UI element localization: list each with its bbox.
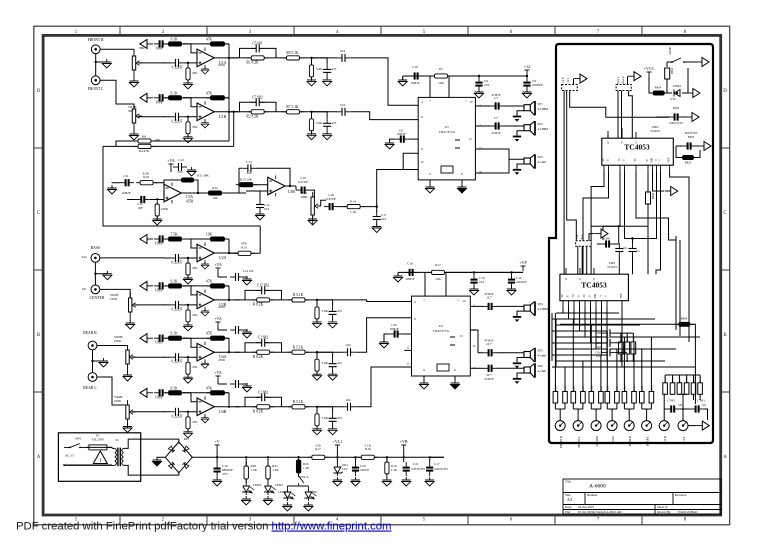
resistor R16 1.2K switch SW2-A LEDs (297, 456, 299, 458)
ground (382, 477, 391, 486)
svg-text:+VB: +VB (400, 439, 408, 444)
wire (100, 289, 130, 298)
ground (323, 131, 332, 140)
capacitor C16 100UF (404, 269, 418, 276)
feedback box with capacitor C? 682 (245, 343, 282, 353)
svg-text:104: 104 (484, 83, 489, 87)
wire right bundle (625, 172, 661, 274)
resistor R 8.2K (253, 405, 274, 409)
ground (328, 319, 337, 328)
svg-text:5.1K: 5.1K (365, 444, 372, 448)
svg-text:100P: 100P (155, 46, 162, 50)
svg-text:C510: C510 (595, 351, 601, 354)
svg-text:104: 104 (479, 280, 484, 284)
svg-text:LED3: LED3 (278, 490, 286, 494)
capacitor C15 2200UF (511, 272, 513, 275)
wire (155, 183, 164, 188)
svg-text:1.2K: 1.2K (391, 468, 398, 472)
svg-text:4-ohm: 4-ohm (538, 160, 547, 164)
connector CN3 dashed (576, 241, 592, 247)
potentiometer REAR R (624, 421, 634, 431)
svg-text:R2 8.2K: R2 8.2K (246, 115, 259, 119)
svg-text:E903: E903 (688, 135, 695, 139)
svg-text:15: 15 (473, 344, 477, 348)
ground (242, 496, 251, 505)
coupling capacitor (342, 348, 356, 356)
wire (163, 411, 197, 413)
svg-text:C17: C17 (434, 462, 440, 466)
svg-text:C508: C508 (595, 342, 601, 345)
resistor R2 8.2K (247, 110, 268, 114)
resistor R804 (675, 322, 694, 326)
power +VA C12 (167, 158, 175, 169)
svg-text:C? 682: C? 682 (258, 336, 268, 340)
wire row1 to IC1 (351, 58, 419, 105)
svg-text:+VF: +VF (519, 260, 527, 265)
svg-text:U1B: U1B (219, 115, 227, 119)
capacitor 0.22UF (170, 254, 184, 262)
svg-text:100K: 100K (114, 399, 122, 403)
svg-text:+V: +V (215, 439, 220, 444)
svg-text:RE1: RE1 (184, 437, 190, 441)
svg-text:C16: C16 (407, 262, 413, 266)
svg-text:10K: 10K (438, 81, 444, 85)
ground (95, 262, 107, 285)
svg-text:REAR L: REAR L (647, 436, 650, 446)
svg-text:100UF: 100UF (396, 132, 405, 136)
resistor R825 (679, 156, 698, 160)
svg-text:C7902: C7902 (667, 400, 675, 403)
capacitor C11 100UF (108, 185, 117, 194)
capacitor C17 103 to ground (376, 207, 378, 212)
wire transformer to bridge (123, 439, 178, 448)
svg-text:C: C (659, 159, 662, 161)
svg-text:AC 15: AC 15 (65, 454, 74, 458)
svg-text:C7: C7 (494, 116, 498, 120)
svg-text:D: D (723, 89, 727, 94)
wire right column (669, 230, 690, 318)
svg-text:A in: A in (576, 234, 579, 239)
wire (100, 80, 134, 109)
output capacitor 470UF SP4 (470, 305, 483, 307)
svg-text:0.22UF: 0.22UF (172, 261, 183, 265)
svg-text:T1: T1 (115, 438, 119, 442)
LED LED4 (245, 479, 247, 483)
svg-text:+VA: +VA (214, 262, 222, 267)
svg-text:SW1: SW1 (75, 437, 82, 441)
output capacitor 470UF SP5 (470, 330, 483, 353)
wire (214, 406, 239, 408)
svg-text:BASS: BASS (612, 436, 615, 443)
speaker SP4 (513, 301, 535, 322)
potentiometer BASS (607, 421, 617, 431)
arrow (653, 172, 665, 191)
capacitor to ground (317, 407, 333, 413)
input capacitor C6 100UF (395, 136, 409, 143)
capacitor C7902 (666, 405, 680, 412)
ground (313, 426, 322, 435)
resistor R840 (553, 392, 558, 404)
resistor R9 5.1K (283, 56, 304, 60)
ground (308, 216, 317, 225)
svg-text:4-ohm: 4-ohm (538, 354, 547, 358)
svg-text:R12: R12 (212, 186, 218, 190)
resistor R502 (625, 342, 630, 354)
svg-text:100K: 100K (161, 207, 169, 211)
ground (402, 477, 411, 486)
svg-text:7.5K: 7.5K (170, 233, 177, 237)
svg-text:C12: C12 (178, 158, 184, 162)
svg-text:1.5K: 1.5K (251, 468, 258, 472)
ground (184, 429, 193, 438)
wire (235, 351, 342, 353)
resistor R424 (649, 91, 668, 95)
svg-text:SP2: SP2 (538, 122, 544, 126)
input arrow (140, 39, 153, 48)
op-amp U4B (197, 396, 214, 417)
resistor R807 (677, 383, 682, 395)
svg-text:47K: 47K (192, 420, 198, 424)
svg-text:R11 39K: R11 39K (197, 174, 209, 178)
RCA jack FRONT R (91, 45, 100, 54)
ground (283, 502, 292, 511)
svg-text:Ctr R: Ctr R (562, 77, 565, 83)
arrow (589, 234, 595, 241)
svg-text:T3L250V: T3L250V (91, 438, 105, 442)
svg-text:104: 104 (346, 343, 351, 347)
node (310, 111, 312, 113)
svg-text:A: A (37, 455, 41, 460)
svg-text:TDA7377A: TDA7377A (433, 329, 450, 333)
svg-text:Drawn By:: Drawn By: (657, 510, 671, 514)
svg-text:R 5.1K: R 5.1K (293, 293, 304, 297)
resistor 47K to ground (187, 63, 189, 67)
svg-text:4558: 4558 (186, 200, 193, 204)
svg-text:5.6K: 5.6K (316, 67, 323, 71)
svg-text:4-OHM: 4-OHM (538, 307, 549, 311)
svg-text:5.6K: 5.6K (322, 309, 329, 313)
svg-text:R7: R7 (439, 67, 443, 71)
svg-text:10: 10 (463, 299, 467, 303)
power +VA decouple U4B (214, 370, 222, 381)
svg-text:C13: C13 (246, 160, 252, 164)
resistor R 8.2K (253, 350, 274, 354)
resistor R849 (632, 392, 637, 404)
resistor R 5.1K (288, 350, 309, 354)
svg-text:1502: 1502 (596, 346, 602, 349)
node +VB (400, 439, 408, 450)
svg-text:10UF: 10UF (155, 288, 163, 292)
capacitor to ground (317, 300, 333, 306)
svg-text:4-OHM: 4-OHM (538, 107, 549, 111)
wire (163, 356, 197, 358)
svg-text:INH: INH (594, 294, 597, 299)
resistor to ground (316, 352, 318, 358)
svg-text:47K: 47K (206, 386, 213, 390)
svg-text:LED2: LED2 (275, 483, 283, 487)
svg-text:9.1K: 9.1K (170, 279, 177, 283)
capacitor to ground (312, 58, 328, 64)
arrow (687, 89, 700, 98)
capacitor to ground (317, 352, 333, 358)
capacitor C19 6800UF (216, 457, 218, 463)
svg-text:PDF created with FinePrint pdf: PDF created with FinePrint pdfFactory tr… (16, 521, 391, 533)
potentiometer REAR L (642, 421, 652, 431)
svg-text:0.22UF: 0.22UF (172, 414, 183, 418)
svg-text:Ctr L: Ctr L (567, 77, 570, 83)
op-amp U3B (246, 185, 268, 191)
capacitor C7901 (690, 405, 704, 412)
svg-text:R18: R18 (365, 447, 371, 451)
switching section enclosure (549, 44, 713, 443)
speaker SP1 (513, 101, 535, 122)
wire (214, 299, 239, 301)
svg-text:0.22UF: 0.22UF (172, 307, 183, 311)
resistor R12 10K (205, 191, 226, 195)
wire row2 to IC1 (351, 112, 419, 120)
svg-text:7501: 7501 (596, 336, 602, 339)
feedback resistor 47K (183, 286, 229, 300)
svg-text:100UF/25V: 100UF/25V (411, 467, 426, 471)
svg-text:Z: Z (635, 141, 637, 145)
svg-text:File:: File: (565, 510, 571, 514)
capacitor C12 10UF (136, 196, 150, 203)
resistor R809 (691, 383, 696, 395)
svg-text:SP4: SP4 (538, 302, 544, 306)
svg-text:TC4053: TC4053 (624, 143, 650, 152)
svg-text:SP1: SP1 (538, 102, 544, 106)
svg-text:472: 472 (332, 121, 337, 125)
input capacitor 100UF (389, 330, 403, 337)
svg-text:10K: 10K (212, 196, 218, 200)
node +VL1 (333, 439, 343, 450)
svg-text:A: A (600, 295, 603, 297)
ground (213, 477, 222, 486)
title block (563, 479, 721, 514)
svg-text:R 5.1K: R 5.1K (293, 345, 304, 349)
wire (625, 172, 669, 239)
ground (123, 372, 132, 381)
ground (333, 477, 342, 486)
svg-text:TC4053: TC4053 (607, 265, 617, 269)
svg-text:SW2B: SW2B (669, 47, 672, 55)
svg-text:104: 104 (346, 398, 351, 402)
capacitor C9 104 (478, 75, 480, 77)
capacitor C17 100UF/25V (429, 457, 431, 462)
capacitor C910 (632, 239, 634, 244)
resistor R21 1.5K and LED2 (267, 456, 269, 458)
ground op-amp pin (201, 308, 209, 316)
svg-text:Sheet of: Sheet of (657, 505, 668, 509)
speaker SP2 (513, 121, 535, 142)
LED LED1 (304, 489, 316, 501)
arrow output (696, 421, 709, 430)
wire (116, 141, 137, 146)
resistor R8010 (698, 383, 703, 395)
wire (214, 252, 239, 254)
svg-text:470UF: 470UF (484, 292, 493, 296)
potentiometer FRONT L (573, 421, 583, 431)
ground op-amp pin (201, 415, 209, 423)
svg-text:100UF: 100UF (389, 327, 398, 331)
svg-text:47K: 47K (192, 71, 198, 75)
svg-text:5.6K: 5.6K (316, 121, 323, 125)
potentiometer AUX R (659, 421, 669, 431)
svg-text:470UF: 470UF (491, 93, 500, 97)
resistor R7 10K (431, 74, 452, 78)
svg-text:C17 682: C17 682 (257, 283, 269, 287)
ground IC1 (430, 180, 462, 185)
ground (184, 374, 193, 383)
wire primary (64, 447, 112, 465)
ground op-amp pin (201, 66, 209, 74)
resistor R805 (663, 383, 668, 395)
arrow (698, 142, 711, 151)
svg-text:10UF: 10UF (155, 242, 163, 246)
ground (96, 54, 107, 76)
wire (183, 338, 197, 347)
ground (153, 216, 162, 225)
IC2 small pins (450, 337, 455, 345)
wire (97, 346, 128, 351)
svg-text:4-OHM: 4-OHM (538, 127, 549, 131)
resistor to ground (311, 112, 313, 118)
svg-text:11: 11 (407, 362, 410, 366)
resistor R4 47K (134, 144, 155, 148)
ground IC2 (424, 376, 455, 381)
feedback resistor 10K (183, 239, 229, 253)
capacitor C8 2200UF (526, 76, 528, 78)
svg-text:+VA: +VA (214, 370, 222, 375)
svg-text:10P: 10P (678, 404, 683, 407)
capacitor to ground (312, 112, 328, 118)
svg-text:Number: Number (587, 493, 598, 497)
capacitor C20 100UF (354, 456, 356, 458)
input arrow (140, 388, 153, 397)
svg-text:AUX R: AUX R (664, 436, 667, 445)
svg-text:100UF/25V: 100UF/25V (434, 467, 449, 471)
feedback resistor R11 39K (164, 180, 198, 193)
wire horizontal distribution (556, 312, 619, 314)
svg-text:C? 682: C? 682 (258, 390, 268, 394)
sheet inner border (43, 35, 721, 515)
svg-text:47K: 47K (192, 125, 198, 129)
resistor to ground (316, 407, 318, 413)
coupling capacitor (337, 108, 351, 116)
capacitor 10UF (154, 282, 168, 289)
op-amp U3A (164, 183, 181, 204)
RCA jack BASS (91, 254, 100, 263)
svg-text:1C7: 1C7 (486, 296, 492, 300)
RCA jack REAR R (88, 341, 97, 350)
ground (184, 322, 193, 331)
power rail +VF (398, 271, 523, 273)
svg-text:100UF: 100UF (405, 277, 414, 281)
resistor R 8.2K (253, 298, 274, 302)
svg-text:472: 472 (337, 361, 342, 365)
power supply box (58, 433, 140, 482)
ground (130, 78, 139, 87)
input arrow (140, 93, 153, 102)
wire (425, 272, 523, 296)
svg-text:FRONT L: FRONT L (578, 436, 581, 448)
svg-text:R10: R10 (143, 175, 149, 179)
svg-text:C5 681: C5 681 (252, 41, 263, 45)
RCA jack CENTER (91, 285, 100, 294)
svg-text:100P: 100P (155, 100, 162, 104)
resistor R503 (631, 342, 636, 354)
op-amp U2B (197, 289, 214, 310)
resistor R828 (647, 172, 649, 192)
resistor R14 1.1K (343, 205, 364, 209)
zener ZD1 12V (336, 457, 338, 464)
capacitor C909 (618, 241, 620, 243)
svg-text:10K: 10K (206, 233, 213, 237)
svg-text:SP5: SP5 (538, 349, 544, 353)
svg-text:!: ! (99, 458, 101, 464)
svg-text:0.22UF: 0.22UF (172, 65, 183, 69)
LED LED3 (283, 489, 295, 501)
IC U1 TDA7377A (418, 97, 475, 179)
resistor 47K to ground (187, 117, 189, 121)
svg-text:+12: +12 (524, 64, 530, 69)
wire left risers (552, 313, 556, 367)
potentiometer FRONT R (555, 421, 565, 431)
wire rear R to IC2 pin6 (356, 318, 411, 353)
svg-text:Z: Z (593, 277, 595, 281)
wire left bus down (103, 146, 260, 226)
svg-text:R 8.2K: R 8.2K (253, 410, 264, 414)
resistor R501 (619, 342, 624, 354)
resistor to ground (311, 58, 313, 64)
node (316, 406, 318, 408)
wire (235, 406, 342, 408)
wire (100, 48, 134, 50)
wire (97, 377, 128, 405)
svg-text:R15: R15 (241, 246, 247, 250)
svg-text:224: 224 (247, 171, 252, 175)
wire (163, 62, 197, 64)
feedback resistor 47K (183, 338, 229, 352)
svg-text:Tout: Tout (81, 255, 87, 259)
svg-text:TDA7377A: TDA7377A (439, 130, 456, 134)
capacitor C504 (602, 329, 616, 337)
output capacitor 470UF SP6 (470, 367, 483, 369)
svg-text:U2A: U2A (219, 256, 227, 260)
ground (425, 477, 434, 486)
feedback box with capacitor C5 681 (240, 48, 277, 58)
wire (223, 185, 246, 193)
svg-text:E902: E902 (673, 106, 680, 110)
svg-text:12: 12 (407, 346, 411, 350)
input arrow (140, 334, 153, 343)
svg-text:4558: 4558 (218, 63, 225, 67)
svg-text:Title: Title (565, 480, 571, 484)
ground (184, 275, 193, 284)
capacitor C21 100UF/25V (403, 457, 405, 462)
connector CN1 dashed (562, 85, 578, 91)
power +VA decouple U4A (214, 316, 222, 327)
ground (264, 496, 273, 505)
svg-text:9.1K: 9.1K (170, 386, 177, 390)
svg-text:Date:: Date: (565, 505, 572, 509)
resistor R8 47K (134, 139, 155, 143)
bridge output SP3 (475, 149, 524, 173)
svg-text:100UF: 100UF (360, 468, 369, 472)
svg-text:C: C (605, 295, 608, 297)
svg-text:R 5.1K: R 5.1K (293, 400, 304, 404)
svg-text:LED1: LED1 (310, 490, 318, 494)
